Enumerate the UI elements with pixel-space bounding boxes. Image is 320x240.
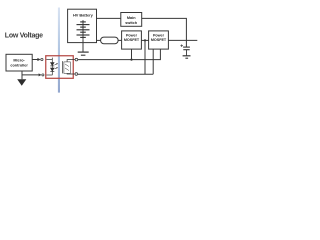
ground (below capacitor)	[183, 56, 191, 58]
optocoupler photodiode stack line	[62, 61, 64, 73]
svg-text:HV Battery: HV Battery	[73, 12, 94, 17]
optocoupler light arrows	[55, 64, 58, 69]
optocoupler turn-off circuit box	[64, 62, 70, 74]
power MOSFET Q2 box	[149, 31, 169, 49]
capacitor C1	[183, 47, 190, 56]
fuse F1	[101, 37, 119, 44]
battery B1 box	[68, 9, 97, 42]
wire Q2 source pin down	[152, 49, 154, 74]
svg-text:Main: Main	[127, 16, 136, 20]
wire battery to fuse	[97, 39, 101, 41]
microcontroller U2 box	[6, 54, 32, 71]
svg-text:MOSFET: MOSFET	[151, 38, 167, 42]
node gate junction	[130, 58, 132, 60]
wire gate drive line	[78, 49, 160, 60]
wire Q1 gate pin down	[131, 49, 133, 60]
svg-text:Power: Power	[126, 33, 138, 37]
power MOSFET Q1 box	[122, 31, 142, 49]
terminal (gate output)	[75, 58, 78, 61]
svg-text:switch: switch	[125, 21, 137, 25]
ground (signal, triangle)	[17, 79, 26, 86]
wire microcontroller ground	[21, 71, 23, 79]
svg-text:Power: Power	[153, 33, 165, 37]
wire main switch to right bus	[142, 18, 187, 47]
battery symbol	[77, 20, 90, 40]
wire common source node down	[144, 40, 146, 74]
wire Q2 to output	[168, 39, 197, 41]
svg-text:Micro-: Micro-	[13, 59, 25, 63]
wire battery negative down to earth	[82, 40, 84, 52]
optocoupler U1 (photovoltaic driver, red highlight box)	[46, 56, 74, 79]
wire LED return to ground node	[22, 74, 39, 76]
svg-text:controller: controller	[10, 63, 28, 67]
wire battery to main switch	[97, 17, 121, 19]
node common source junction	[144, 39, 146, 41]
optocoupler output leads	[67, 60, 75, 74]
capacitor C1 polarity +	[180, 44, 183, 47]
isolation barrier line (low/high voltage divider)	[58, 8, 60, 93]
wire fuse to MOSFET1	[118, 39, 122, 41]
wire source return line	[78, 73, 153, 75]
main switch S1 box	[121, 13, 142, 27]
wire microcontroller drive to optocoupler (arrow)	[32, 59, 38, 61]
wire Q1 to Q2	[141, 39, 148, 41]
svg-text:Low Voltage: Low Voltage	[5, 33, 43, 40]
ground (earth, under battery)	[78, 52, 89, 55]
svg-text:MOSFET: MOSFET	[124, 38, 140, 42]
terminal (LED return)	[42, 74, 44, 76]
terminal (source output)	[75, 73, 78, 76]
optocoupler LED stack	[46, 58, 54, 76]
